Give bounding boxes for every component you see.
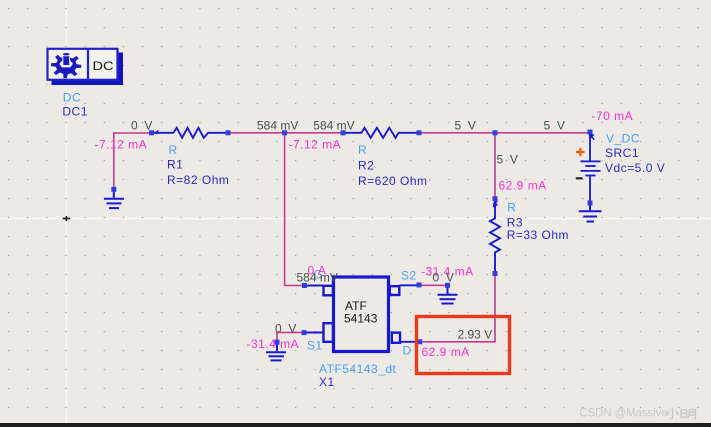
svg-text:-31.4 mA: -31.4 mA xyxy=(247,337,300,351)
node S1 ground connection xyxy=(275,340,280,345)
node R1 pin 1 xyxy=(149,130,154,135)
svg-text:R=620 Ohm: R=620 Ohm xyxy=(358,174,428,188)
ground (S2) xyxy=(438,285,458,303)
node R1 ground connection xyxy=(111,187,116,192)
svg-text:DC: DC xyxy=(93,59,114,73)
svg-text:5 V: 5 V xyxy=(455,118,476,132)
svg-text:0 V: 0 V xyxy=(275,321,296,335)
node X1 drain pin xyxy=(417,339,422,344)
wire net3 5V horizontal xyxy=(420,132,589,134)
node X1 S1 pin xyxy=(302,330,307,335)
S1 lead xyxy=(304,332,324,334)
ground (S1) xyxy=(266,342,286,360)
node SRC1 plus terminal xyxy=(588,130,593,135)
plus sign SRC1 xyxy=(576,148,585,156)
svg-text:R2: R2 xyxy=(358,159,374,173)
pin S2 box xyxy=(390,286,400,295)
svg-text:D: D xyxy=(403,344,412,358)
svg-text:-7.12 mA: -7.12 mA xyxy=(289,138,342,152)
current arrow at R1 xyxy=(155,130,159,134)
ground (R1 net) xyxy=(104,190,124,208)
origin cross xyxy=(63,216,71,221)
pin G box xyxy=(324,286,334,296)
node SRC1 minus terminal xyxy=(588,201,593,206)
ground (SRC1) xyxy=(579,204,602,222)
svg-text:5 V: 5 V xyxy=(544,118,565,132)
axis line vertical xyxy=(66,0,68,427)
voltage source SRC1 xyxy=(581,134,601,203)
wire drain net xyxy=(420,274,495,342)
DC controller box xyxy=(48,49,118,80)
resistor R2 xyxy=(345,128,417,138)
svg-text:S1: S1 xyxy=(307,339,323,353)
svg-text:584 mV: 584 mV xyxy=(313,118,354,132)
DC controller shadow xyxy=(52,53,124,86)
junction net 584mV xyxy=(282,130,287,135)
wire net3 to R3 xyxy=(494,133,496,198)
node R1 pin 2 xyxy=(226,130,231,135)
DC controller gear icon xyxy=(51,53,81,79)
bottom bar xyxy=(0,423,711,427)
node R2 pin 2 xyxy=(417,130,422,135)
current arrow at R3 xyxy=(493,201,498,207)
svg-text:V_DC: V_DC xyxy=(606,131,640,145)
svg-text:0 V: 0 V xyxy=(433,271,454,285)
svg-text:584 mV: 584 mV xyxy=(297,271,338,285)
node R3 pin 1 xyxy=(493,196,498,201)
svg-text:62.9 mA: 62.9 mA xyxy=(422,345,470,359)
svg-text:R=82 Ohm: R=82 Ohm xyxy=(167,173,229,187)
svg-text:ATF: ATF xyxy=(345,299,367,313)
svg-text:5 V: 5 V xyxy=(497,152,518,166)
svg-text:Vdc=5.0 V: Vdc=5.0 V xyxy=(605,161,665,175)
svg-text:S2: S2 xyxy=(401,269,417,283)
watermark xiao ming glyphs xyxy=(667,408,696,419)
junction net 5V xyxy=(493,130,498,135)
pin S1 box xyxy=(324,323,334,342)
axis line horizontal xyxy=(0,218,711,220)
svg-text:DC: DC xyxy=(63,91,81,105)
resistor R1 xyxy=(154,128,226,138)
current arrow at SRC1 xyxy=(589,133,595,140)
gate lead xyxy=(304,285,324,287)
minus sign SRC1 xyxy=(576,177,583,179)
wire net1 vertical to ground xyxy=(114,133,150,190)
svg-text:R: R xyxy=(507,201,516,215)
svg-text:R1: R1 xyxy=(167,158,183,172)
svg-text:0 V: 0 V xyxy=(131,119,152,133)
DC controller divider xyxy=(87,48,89,80)
svg-text:62.9 mA: 62.9 mA xyxy=(499,179,547,193)
S2 lead xyxy=(400,284,419,286)
node R3 pin 2 xyxy=(493,271,498,276)
svg-text:R: R xyxy=(169,143,178,157)
svg-text:CSDN @Massive: CSDN @Massive xyxy=(580,405,668,419)
red highlight box xyxy=(417,317,510,374)
D lead xyxy=(400,341,419,343)
svg-text:X1: X1 xyxy=(319,375,335,389)
transistor X1 body xyxy=(334,277,389,352)
svg-text:-70 mA: -70 mA xyxy=(592,109,634,123)
svg-text:2.93 V: 2.93 V xyxy=(458,328,493,342)
node X1 gate pin xyxy=(302,283,307,288)
node R2 pin 1 xyxy=(341,130,346,135)
resistor R3 xyxy=(490,200,500,272)
pin D box xyxy=(392,333,400,343)
svg-text:-7.12 mA: -7.12 mA xyxy=(95,138,148,152)
wire net2 gate branch xyxy=(285,133,303,286)
svg-text:DC1: DC1 xyxy=(62,104,88,118)
svg-text:R: R xyxy=(358,143,367,157)
svg-text:54143: 54143 xyxy=(344,312,378,326)
wire S2 to ground xyxy=(420,284,448,286)
node S2 ground connection xyxy=(445,283,450,288)
wire S1 to ground xyxy=(277,333,303,343)
svg-text:R=33 Ohm: R=33 Ohm xyxy=(507,228,569,242)
node X1 S2 pin xyxy=(417,282,422,287)
wire net2 584mV horizontal xyxy=(230,132,342,134)
svg-text:SRC1: SRC1 xyxy=(605,146,639,160)
svg-text:584 mV: 584 mV xyxy=(257,118,298,132)
